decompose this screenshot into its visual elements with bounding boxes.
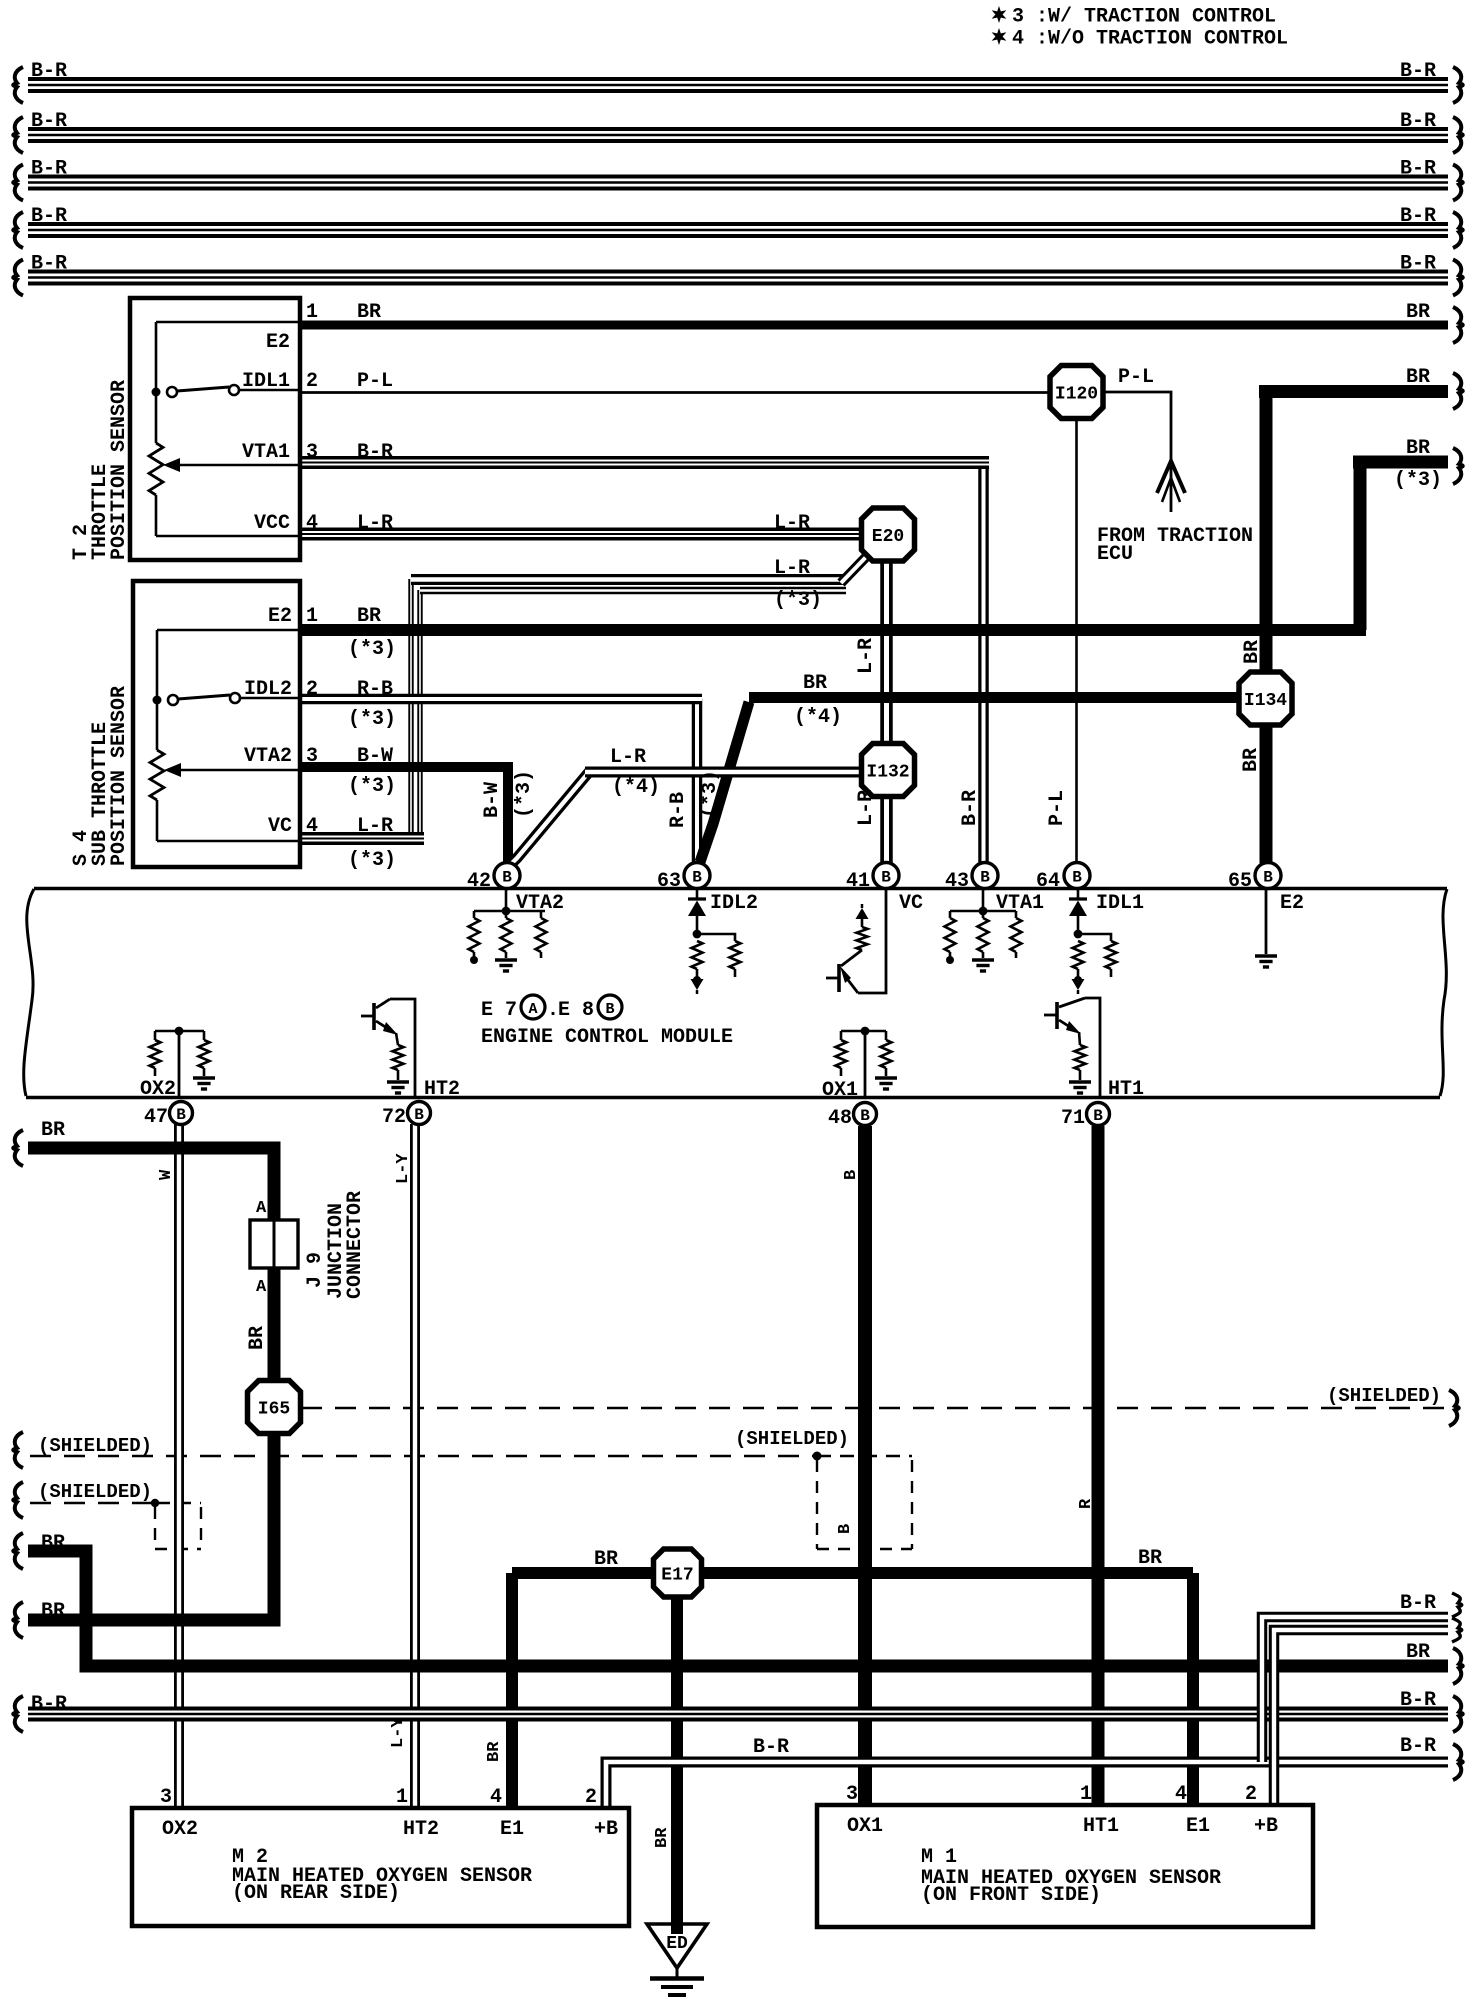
svg-text:(ON REAR SIDE): (ON REAR SIDE) <box>232 1882 400 1905</box>
svg-text:65: 65 <box>1228 870 1252 893</box>
svg-text:B-R: B-R <box>1400 60 1436 83</box>
svg-text:4 :W/O TRACTION CONTROL: 4 :W/O TRACTION CONTROL <box>1012 28 1288 51</box>
svg-text:3: 3 <box>306 441 318 464</box>
svg-text:BR: BR <box>357 301 381 324</box>
svg-text:(SHIELDED): (SHIELDED) <box>38 1481 152 1503</box>
svg-text:3: 3 <box>846 1783 858 1806</box>
svg-text:W: W <box>157 1169 176 1180</box>
svg-text:BR: BR <box>803 672 827 695</box>
svg-text:J 9: J 9 <box>304 1252 327 1288</box>
svg-text:64: 64 <box>1036 870 1060 893</box>
svg-text:B-W: B-W <box>481 782 504 818</box>
svg-text:A: A <box>256 1278 267 1297</box>
svg-text:(*3): (*3) <box>348 638 396 661</box>
svg-text:HT1: HT1 <box>1083 1815 1119 1838</box>
svg-text:1: 1 <box>1080 1783 1092 1806</box>
svg-text:E2: E2 <box>268 605 292 628</box>
svg-text:3: 3 <box>160 1786 172 1809</box>
svg-text:IDL2: IDL2 <box>244 678 292 701</box>
svg-text:B: B <box>502 868 512 886</box>
svg-text:B: B <box>1093 1107 1103 1125</box>
svg-text:HT2: HT2 <box>424 1078 460 1101</box>
svg-text:B-R: B-R <box>31 158 67 181</box>
svg-text:IDL1: IDL1 <box>242 370 290 393</box>
svg-text:VTA1: VTA1 <box>242 441 290 464</box>
svg-text:(*3): (*3) <box>348 775 396 798</box>
svg-text:L-R: L-R <box>774 557 810 580</box>
svg-text:72: 72 <box>382 1106 406 1129</box>
svg-text:BR: BR <box>1138 1547 1162 1570</box>
svg-text:E 8: E 8 <box>558 999 594 1022</box>
svg-text:P-L: P-L <box>1118 366 1154 389</box>
svg-text:B-R: B-R <box>31 205 67 228</box>
svg-text:4: 4 <box>306 512 318 535</box>
svg-text:OX2: OX2 <box>162 1818 198 1841</box>
svg-text:B: B <box>980 868 990 886</box>
svg-text:B-R: B-R <box>31 110 67 133</box>
svg-text:B: B <box>1263 868 1273 886</box>
svg-text:BR: BR <box>41 1600 65 1623</box>
svg-text:VC: VC <box>268 815 292 838</box>
svg-text:(*3): (*3) <box>513 770 536 818</box>
svg-text:3 :W/ TRACTION CONTROL: 3 :W/ TRACTION CONTROL <box>1012 6 1276 29</box>
svg-text:ED: ED <box>666 1934 688 1954</box>
svg-text:B-R: B-R <box>31 1693 67 1716</box>
svg-text:(*3): (*3) <box>699 770 722 818</box>
svg-text:(*4): (*4) <box>794 706 842 729</box>
svg-text:B: B <box>692 868 702 886</box>
svg-text:A: A <box>528 1001 537 1018</box>
svg-text:71: 71 <box>1061 1107 1085 1130</box>
svg-text:B: B <box>836 1524 855 1534</box>
svg-text:(*3): (*3) <box>774 589 822 612</box>
svg-text:VTA2: VTA2 <box>516 892 564 915</box>
svg-text:B-R: B-R <box>1400 253 1436 276</box>
svg-text:BR: BR <box>41 1119 65 1142</box>
svg-text:IDL1: IDL1 <box>1096 892 1144 915</box>
svg-text:OX1: OX1 <box>847 1815 883 1838</box>
svg-text:BR: BR <box>485 1741 504 1762</box>
svg-text:L-R: L-R <box>774 512 810 535</box>
svg-text:E20: E20 <box>872 527 904 547</box>
svg-text:OX2: OX2 <box>140 1078 176 1101</box>
svg-text:+B: +B <box>1254 1815 1278 1838</box>
svg-text:BR: BR <box>653 1827 672 1848</box>
svg-text:BR: BR <box>1240 748 1263 772</box>
svg-text:48: 48 <box>828 1107 852 1130</box>
svg-text:L-R: L-R <box>357 815 393 838</box>
svg-text:E 7: E 7 <box>481 999 517 1022</box>
svg-text:4: 4 <box>306 815 318 838</box>
svg-text:ECU: ECU <box>1097 543 1133 566</box>
svg-text:I120: I120 <box>1055 384 1098 404</box>
svg-text:B: B <box>414 1106 424 1124</box>
svg-text:1: 1 <box>306 301 318 324</box>
svg-text:B-R: B-R <box>959 790 982 826</box>
svg-text:L-R: L-R <box>357 512 393 535</box>
svg-text:B-R: B-R <box>1400 1735 1436 1758</box>
svg-text:I134: I134 <box>1244 691 1287 711</box>
svg-text:I65: I65 <box>258 1399 290 1419</box>
svg-text:L-Y: L-Y <box>389 1717 408 1748</box>
svg-text:(ON FRONT SIDE): (ON FRONT SIDE) <box>921 1884 1101 1907</box>
svg-text:E1: E1 <box>500 1818 524 1841</box>
svg-text:M 1: M 1 <box>921 1846 957 1869</box>
svg-text:B-R: B-R <box>1400 158 1436 181</box>
svg-text:ENGINE CONTROL MODULE: ENGINE CONTROL MODULE <box>481 1026 733 1049</box>
svg-text:B: B <box>842 1170 861 1180</box>
svg-text:HT1: HT1 <box>1108 1078 1144 1101</box>
svg-text:2: 2 <box>306 370 318 393</box>
svg-text:BR: BR <box>1406 437 1430 460</box>
svg-text:(*3): (*3) <box>1394 469 1442 492</box>
svg-text:P-L: P-L <box>357 370 393 393</box>
svg-text:R-B: R-B <box>667 792 690 828</box>
svg-text:1: 1 <box>306 605 318 628</box>
svg-text:B-R: B-R <box>1400 110 1436 133</box>
svg-text:(SHIELDED): (SHIELDED) <box>735 1428 849 1450</box>
svg-text:A: A <box>256 1199 267 1218</box>
svg-text:42: 42 <box>467 870 491 893</box>
svg-text:OX1: OX1 <box>822 1079 858 1102</box>
svg-text:2: 2 <box>306 678 318 701</box>
svg-text:(*3): (*3) <box>348 849 396 872</box>
svg-text:+B: +B <box>594 1818 618 1841</box>
svg-text:4: 4 <box>490 1786 502 1809</box>
svg-text:47: 47 <box>144 1106 168 1129</box>
svg-text:POSITION SENSOR: POSITION SENSOR <box>108 380 131 560</box>
svg-text:IDL2: IDL2 <box>710 892 758 915</box>
svg-text:B-R: B-R <box>753 1736 789 1759</box>
svg-text:B-R: B-R <box>31 253 67 276</box>
svg-text:B: B <box>605 1001 614 1018</box>
svg-text:VC: VC <box>899 892 923 915</box>
svg-text:L-R: L-R <box>610 746 646 769</box>
svg-text:E17: E17 <box>661 1565 693 1585</box>
svg-text:4: 4 <box>1175 1783 1187 1806</box>
svg-text:1: 1 <box>396 1786 408 1809</box>
svg-text:B-R: B-R <box>1400 1689 1436 1712</box>
svg-text:R: R <box>1077 1498 1096 1509</box>
svg-text:BR: BR <box>594 1548 618 1571</box>
svg-text:BR: BR <box>1241 640 1264 664</box>
svg-text:L-R: L-R <box>855 790 878 826</box>
svg-text:L-Y: L-Y <box>394 1153 413 1184</box>
svg-text:HT2: HT2 <box>403 1818 439 1841</box>
svg-text:E1: E1 <box>1186 1815 1210 1838</box>
svg-text:B: B <box>176 1106 186 1124</box>
svg-text:I132: I132 <box>866 762 909 782</box>
svg-text:2: 2 <box>585 1786 597 1809</box>
svg-text:B-R: B-R <box>1400 205 1436 228</box>
svg-text:POSITION SENSOR: POSITION SENSOR <box>108 686 131 866</box>
svg-text:41: 41 <box>846 870 870 893</box>
svg-text:63: 63 <box>657 870 681 893</box>
svg-text:L-R: L-R <box>855 638 878 674</box>
svg-text:P-L: P-L <box>1046 790 1069 826</box>
svg-text:B-R: B-R <box>1400 1592 1436 1615</box>
svg-text:VTA1: VTA1 <box>996 892 1044 915</box>
svg-text:E2: E2 <box>1280 892 1304 915</box>
svg-text:VCC: VCC <box>254 512 290 535</box>
svg-text:2: 2 <box>1245 1783 1257 1806</box>
svg-text:(*4): (*4) <box>612 776 660 799</box>
svg-text:3: 3 <box>306 745 318 768</box>
svg-text:(SHIELDED): (SHIELDED) <box>38 1435 152 1457</box>
svg-text:BR: BR <box>41 1532 65 1555</box>
svg-text:BR: BR <box>1406 1641 1430 1664</box>
svg-text:BR: BR <box>357 605 381 628</box>
svg-text:R-B: R-B <box>357 678 393 701</box>
svg-text:43: 43 <box>945 870 969 893</box>
svg-text:BR: BR <box>1406 301 1430 324</box>
svg-text:B: B <box>860 1107 870 1125</box>
svg-text:BR: BR <box>246 1326 269 1350</box>
svg-text:E2: E2 <box>266 331 290 354</box>
svg-text:BR: BR <box>1406 366 1430 389</box>
svg-text:CONNECTOR: CONNECTOR <box>344 1191 367 1299</box>
svg-text:B: B <box>1072 868 1082 886</box>
svg-text:B-R: B-R <box>357 441 393 464</box>
svg-text:B: B <box>881 868 891 886</box>
svg-text:(SHIELDED): (SHIELDED) <box>1327 1385 1441 1407</box>
svg-text:B-W: B-W <box>357 745 393 768</box>
svg-text:VTA2: VTA2 <box>244 745 292 768</box>
svg-text:(*3): (*3) <box>348 708 396 731</box>
svg-text:B-R: B-R <box>31 60 67 83</box>
